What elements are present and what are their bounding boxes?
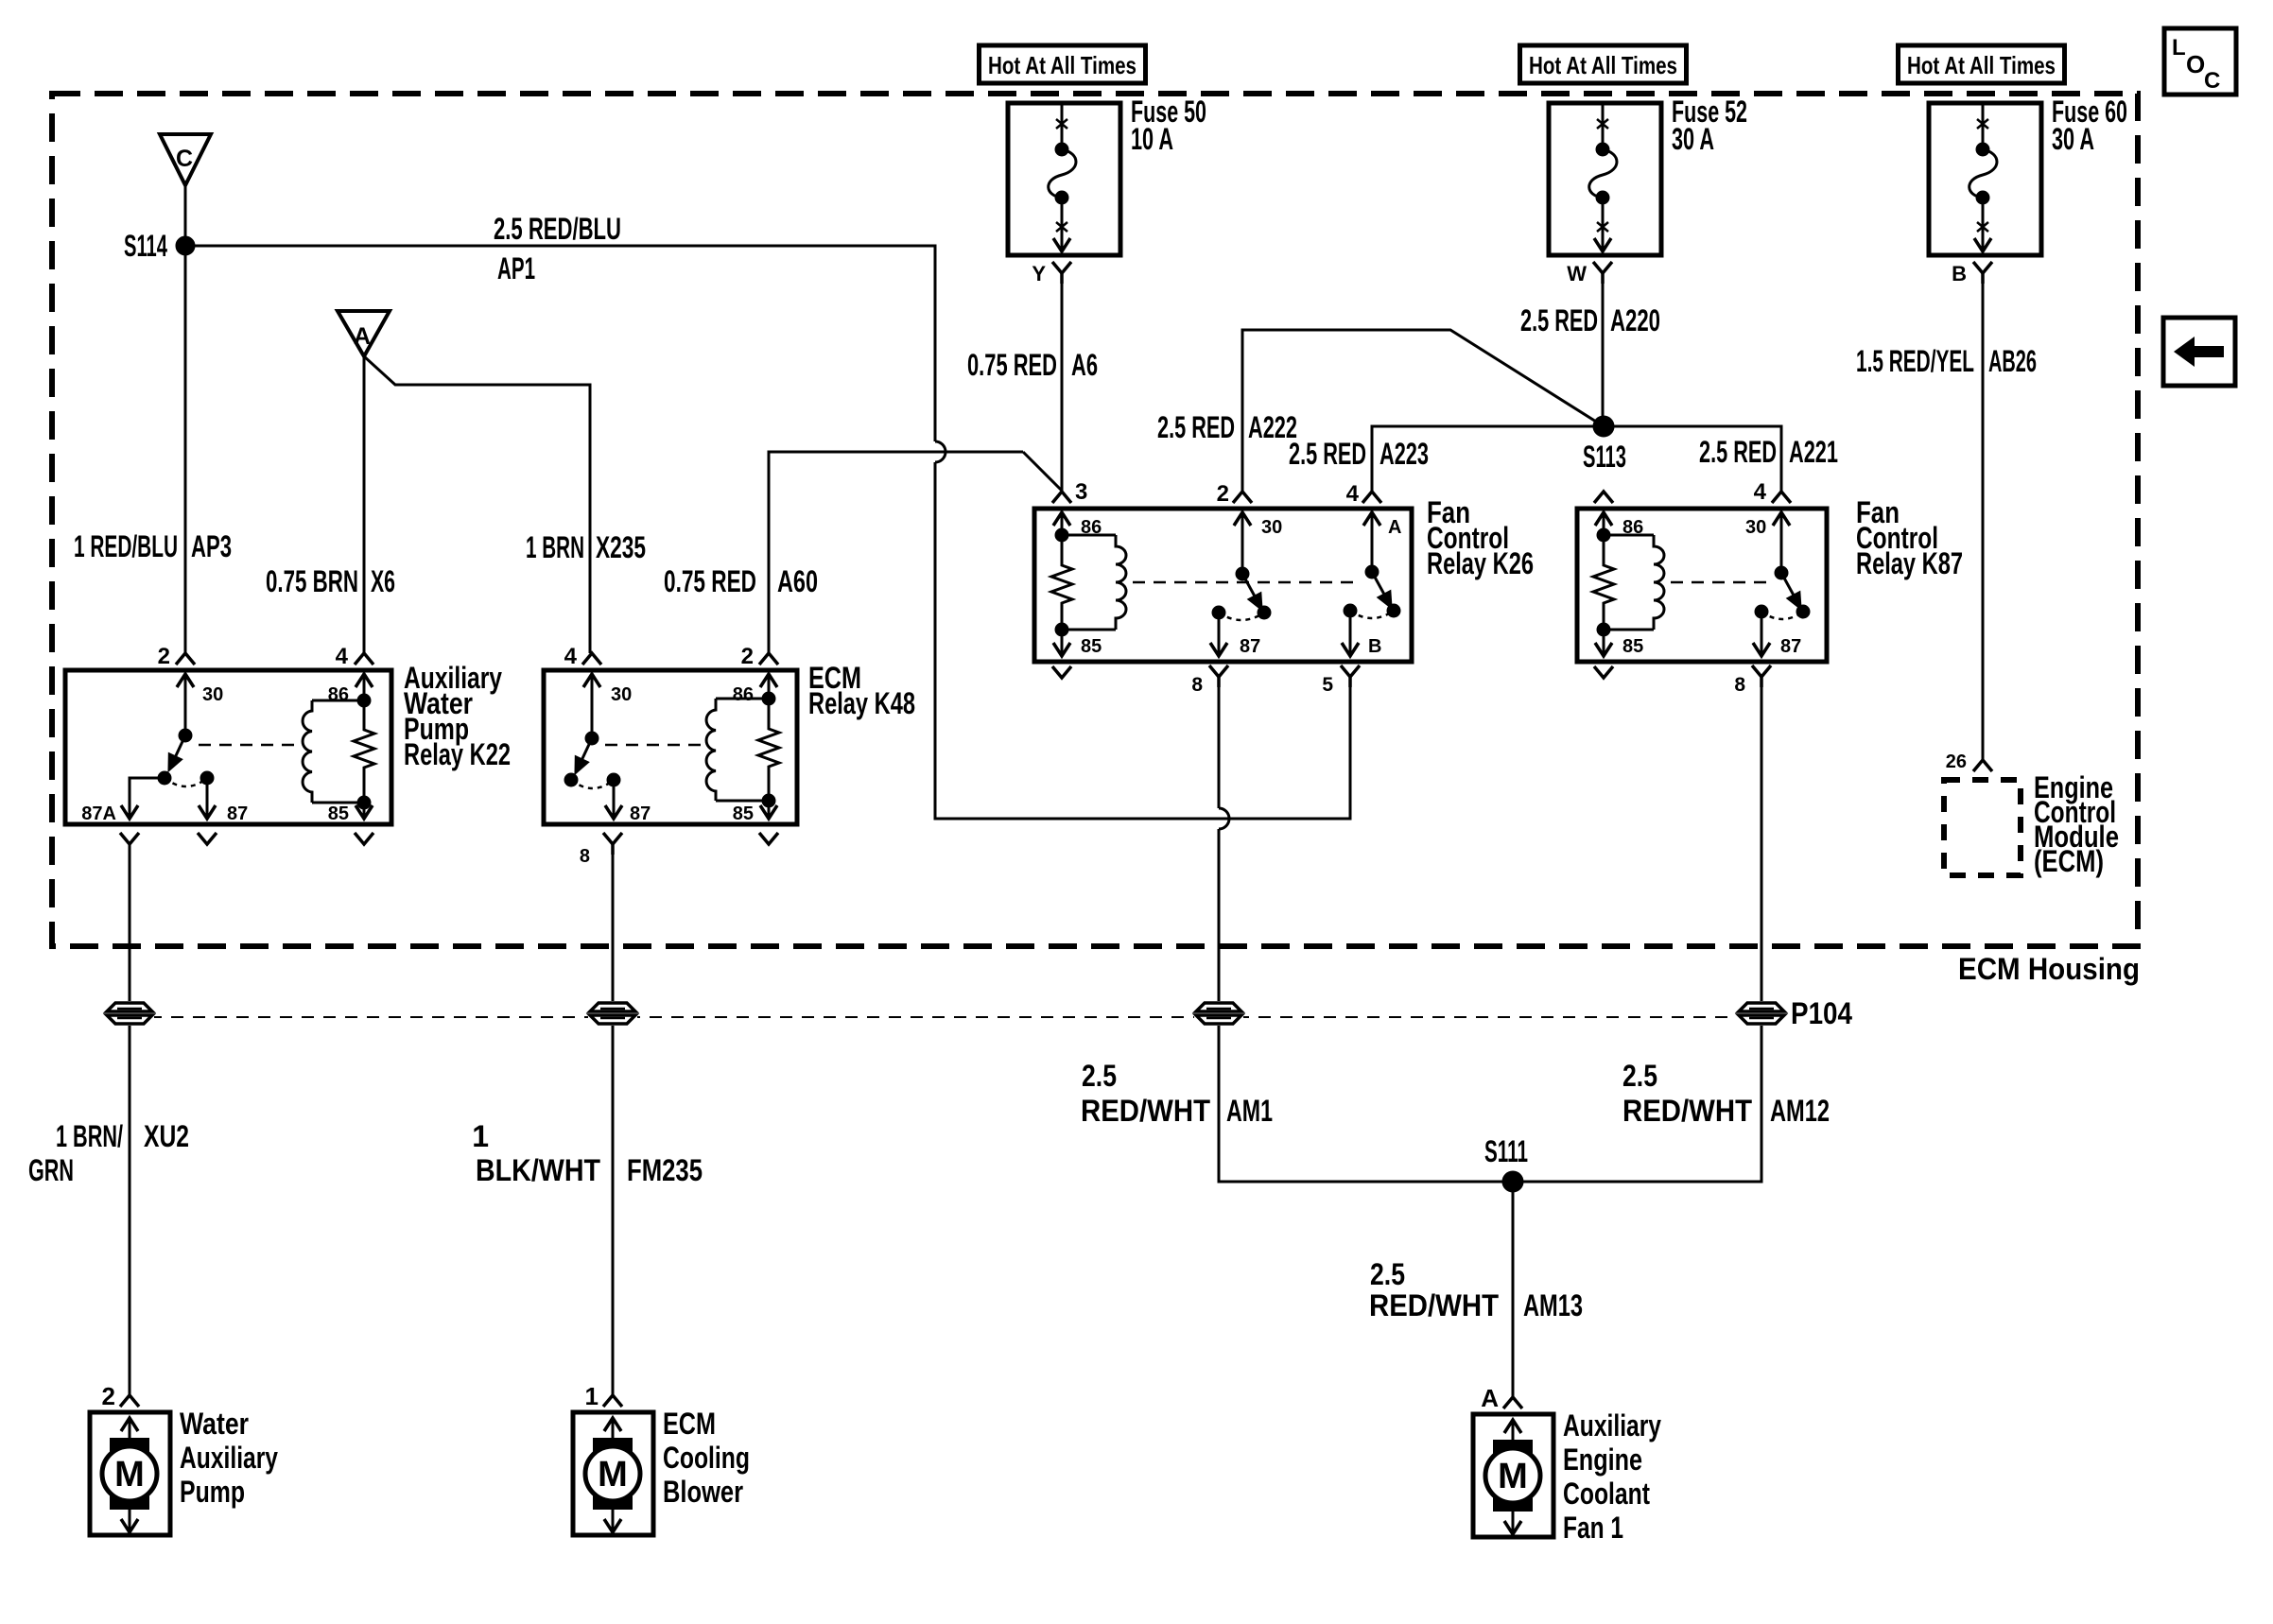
svg-text:Relay K22: Relay K22 [404,737,511,771]
svg-text:87: 87 [1240,636,1260,657]
svg-text:1 BRN: 1 BRN [526,530,584,564]
Engine Control Module (ECM) dashed box [1944,780,2021,875]
K87 switch [1776,567,1787,579]
svg-text:A223: A223 [1379,437,1429,471]
fuse output terminal B [1973,262,1992,273]
svg-text:0.75 RED: 0.75 RED [967,348,1057,382]
svg-text:(ECM): (ECM) [2034,844,2104,878]
K48 pin 85 [768,801,771,819]
svg-text:Hot At All Times: Hot At All Times [1907,51,2056,79]
inline connector grommet at x=1289 [1194,1001,1243,1026]
K22 pin 85 [363,803,366,819]
K87 terminal 4 [1772,492,1791,503]
svg-text:4: 4 [1754,479,1767,505]
svg-text:B: B [1952,262,1967,285]
svg-text:M: M [114,1455,145,1494]
svg-text:AM1: AM1 [1226,1094,1273,1128]
K22 pin 87A [130,778,165,819]
K48 terminal 2 [759,653,778,665]
motor box [1473,1414,1553,1537]
svg-text:8: 8 [1734,674,1745,696]
svg-text:Y: Y [1032,262,1046,285]
svg-text:M: M [598,1455,628,1494]
svg-text:A: A [1481,1384,1499,1412]
svg-text:1: 1 [472,1119,489,1153]
svg-text:XU2: XU2 [144,1119,189,1153]
svg-text:Fan 1: Fan 1 [1563,1511,1623,1545]
svg-text:Auxiliary: Auxiliary [180,1441,278,1475]
K26 pin A [1363,512,1380,526]
svg-text:2: 2 [102,1382,115,1410]
svg-text:2.5 RED: 2.5 RED [1699,435,1777,469]
inline connector grommet at x=648 [588,1001,637,1026]
svg-text:4: 4 [564,644,578,669]
svg-text:A: A [354,323,371,350]
svg-text:86: 86 [328,684,349,705]
relay K48 ECM Relay box [544,670,797,824]
K87 unconnected terminal (pin 86) [1594,492,1613,503]
svg-text:AP1: AP1 [497,251,535,285]
motor box [90,1412,170,1535]
svg-text:1 RED/BLU: 1 RED/BLU [74,529,178,563]
wire 0.75 RED A6 : fuse 50 down to relay K26 pin 3 [1061,279,1064,492]
K48 switch [586,733,598,744]
fuse Fuse 50 (10 A) [1008,103,1120,255]
wire 0.75 RED A60 : relay K48 pin 2 up and over to K26 pin 3 [769,452,1023,653]
wire 1 RED/BLU AP3 : S114 down to relay K22 pin 2 [184,246,187,653]
K48 pin 86 [760,674,777,687]
svg-text:Auxiliary: Auxiliary [1563,1408,1661,1443]
inline connector grommet at x=137 [105,1001,154,1026]
fuse Fuse 60 (30 A) [1929,103,2041,255]
svg-text:2: 2 [741,644,754,669]
wire 2.5 RED/WHT AM12 : K87 pin 8 down to S111 [1513,687,1761,1182]
Hot At All Times label box [1520,45,1687,83]
svg-text:A60: A60 [777,564,818,598]
K26 switch 30-87 [1237,568,1248,579]
svg-text:L: L [2172,35,2186,60]
svg-text:30: 30 [1745,517,1766,538]
svg-text:10 A: 10 A [1131,122,1173,156]
K22 pin 30 [177,674,194,687]
motor terminal A [1512,1291,1515,1397]
svg-text:AM13: AM13 [1523,1288,1583,1322]
K22 terminal 2 [176,653,195,665]
svg-text:AM12: AM12 [1770,1094,1830,1128]
triangle connector C [160,134,211,185]
wire 1.5 RED/YEL AB26 : fuse 60 down to ECM pin 26 [1982,279,1985,760]
svg-text:2.5: 2.5 [1082,1059,1117,1093]
svg-text:30: 30 [202,684,223,705]
svg-text:Coolant: Coolant [1563,1477,1650,1511]
svg-text:87: 87 [227,803,248,824]
svg-text:87A: 87A [81,803,116,824]
K22 resistor [354,700,374,803]
LOC reference box [2164,28,2236,95]
svg-text:S113: S113 [1583,440,1626,474]
K48 pin 8 connector below box [603,833,622,844]
svg-text:X235: X235 [596,530,646,564]
node S113 [1594,417,1613,436]
svg-text:ECM Housing: ECM Housing [1958,952,2140,986]
svg-text:FM235: FM235 [627,1153,703,1187]
svg-text:RED/WHT: RED/WHT [1369,1288,1499,1322]
wire 1 BLK/WHT FM235 : K48 pin 8 down to ECM Cooling Blower [612,855,615,1395]
svg-text:26: 26 [1946,752,1967,772]
K26 resistor [1051,535,1072,630]
K22 coil link (dashed) [199,744,301,747]
svg-text:30 A: 30 A [2052,122,2094,156]
wire 1 BRN X235 : triangle A to relay K48 pin 4 [364,356,590,653]
K48 resistor [758,699,779,801]
svg-text:A221: A221 [1789,435,1838,469]
svg-text:0.75 RED: 0.75 RED [664,564,756,598]
svg-text:Hot At All Times: Hot At All Times [988,51,1136,79]
K48 coil [716,698,769,700]
wire 2.5 RED A222 : K26 pin 2 up and diagonal to S113 [1242,330,1604,492]
svg-text:2.5: 2.5 [1370,1257,1405,1291]
K48 terminal 4 [582,653,601,665]
motor terminal 1 [612,1289,615,1395]
node S114 [177,237,194,254]
K22 switch [180,730,191,741]
svg-text:W: W [1567,262,1587,285]
K87 pin 86 [1595,512,1612,526]
svg-text:2.5: 2.5 [1622,1059,1657,1093]
svg-text:87: 87 [1780,636,1801,657]
svg-text:P104: P104 [1791,996,1852,1030]
svg-text:Hot At All Times: Hot At All Times [1529,51,1677,79]
svg-text:30 A: 30 A [1672,122,1714,156]
svg-text:B: B [1368,636,1381,657]
left-arrow reference box [2163,318,2235,386]
thin dashed harness pass-through line [106,1016,1740,1018]
svg-text:2.5 RED: 2.5 RED [1520,303,1598,337]
svg-text:AB26: AB26 [1988,344,2037,378]
inline connector grommet at x=1863 [1737,1001,1786,1026]
svg-text:87: 87 [630,803,651,824]
svg-text:Relay K48: Relay K48 [808,686,915,720]
svg-text:8: 8 [1191,674,1203,696]
K48 pin 87 [608,774,619,786]
K22 connectors below box [120,833,139,844]
svg-text:85: 85 [733,803,754,824]
K26 terminal 4 [1362,492,1381,503]
K22 terminal 4 [355,653,373,665]
relay K87 Fan Control Relay box [1577,509,1827,662]
K26 terminal 2 [1233,492,1252,503]
wire 2.5 RED/BLU AP1 : S114 right, down, across to K26 pin 5 [185,246,935,441]
svg-text:C: C [176,146,193,172]
svg-text:3: 3 [1075,479,1087,505]
svg-text:85: 85 [328,803,349,824]
K87 pin 30 [1773,512,1790,526]
fuse output terminal W [1593,262,1612,273]
K22 pin 87 [201,772,213,784]
K26 coil [1062,534,1116,537]
svg-text:Relay K87: Relay K87 [1856,546,1963,580]
node S111 [1503,1172,1522,1191]
wire 2.5 RED/WHT AM13 : S111 down to Auxiliary Engine Coolant Fan 1 [1512,1182,1515,1397]
K26 pin 5 connector [1341,665,1360,677]
K22 pin 86 [356,674,373,687]
ECM Housing dashed border [52,94,2138,946]
K87 coil link (dashed) [1671,581,1771,584]
wire 2.5 RED A220 : fuse 52 down to S113 [1602,279,1605,426]
K87 pin 8 connector [1752,665,1771,677]
K26 pin 85 [1061,630,1064,656]
K26 pin 86 [1053,512,1070,526]
svg-text:2.5 RED: 2.5 RED [1157,410,1235,444]
svg-text:Pump: Pump [180,1475,245,1509]
svg-text:1: 1 [585,1382,599,1410]
svg-text:ECM: ECM [663,1407,716,1441]
svg-text:BLK/WHT: BLK/WHT [476,1153,600,1187]
motor terminal 2 [129,1289,131,1395]
svg-text:A220: A220 [1610,303,1660,337]
svg-text:85: 85 [1622,636,1643,657]
Hot At All Times label box [980,45,1146,83]
K26 coil link (dashed) [1133,581,1362,584]
K22 coil [312,700,364,702]
K87 resistor [1593,535,1614,630]
wire 2.5 RED A223 : K26 pin 4 up to S113 [1372,426,1604,492]
svg-text:S111: S111 [1484,1134,1528,1168]
svg-text:2.5 RED: 2.5 RED [1289,437,1366,471]
svg-text:Engine: Engine [1563,1443,1642,1477]
K26 pin 8 connector [1209,665,1228,677]
svg-text:Cooling: Cooling [663,1441,750,1475]
svg-text:30: 30 [1261,517,1282,538]
K48 coil link (dashed) [605,744,703,747]
svg-text:Water: Water [180,1407,249,1441]
wire from triangle C to S114 [184,185,187,246]
svg-text:2.5 RED/BLU: 2.5 RED/BLU [494,212,621,246]
svg-text:AP3: AP3 [191,529,232,563]
svg-text:30: 30 [611,684,632,705]
svg-text:85: 85 [1081,636,1102,657]
K48 pin 30 [583,674,600,687]
wire 1 BRN/GRN XU2 : K22 pin 87A down to Water Auxiliary Pump [129,844,131,1395]
K87 coil [1604,534,1654,537]
ECM pin 26 terminal [1973,760,1992,771]
fuse output terminal Y [1052,262,1071,273]
triangle connector A [338,311,390,356]
svg-text:O: O [2186,50,2205,78]
svg-text:4: 4 [1346,481,1360,507]
relay K22 Auxiliary Water Pump Relay box [65,670,391,824]
svg-text:86: 86 [733,684,754,705]
svg-text:RED/WHT: RED/WHT [1622,1094,1752,1128]
svg-text:Relay K26: Relay K26 [1427,546,1534,580]
fuse Fuse 52 (30 A) [1549,103,1661,255]
svg-text:GRN: GRN [28,1153,74,1187]
svg-text:2: 2 [1217,481,1229,507]
K26 pin B [1345,605,1356,616]
svg-text:5: 5 [1322,674,1333,696]
svg-text:A: A [1388,517,1401,538]
wire 2.5 RED/WHT AM1 : K26 pin 8 down to S111 [1218,687,1221,808]
svg-text:M: M [1498,1457,1528,1496]
svg-text:4: 4 [336,644,349,669]
K87 pin 87 [1756,606,1767,617]
K26 pin 30 [1234,512,1251,526]
svg-text:2: 2 [158,644,170,669]
svg-text:0.75 BRN: 0.75 BRN [266,564,358,598]
svg-text:C: C [2204,68,2220,94]
K26 terminal 3 [1052,492,1071,503]
svg-text:RED/WHT: RED/WHT [1081,1094,1210,1128]
svg-text:1.5 RED/YEL: 1.5 RED/YEL [1856,344,1974,378]
K26 pin 87 [1213,607,1224,618]
motor box [573,1412,653,1535]
svg-text:Blower: Blower [663,1475,743,1509]
Hot At All Times label box [1899,45,2065,83]
svg-text:X6: X6 [371,564,395,598]
relay K26 Fan Control Relay box [1034,509,1412,662]
wire 0.75 BRN X6 : triangle A down to relay K22 pin 4 [363,356,366,653]
svg-text:8: 8 [580,846,590,867]
wire 2.5 RED A221 : S113 right and down to K87 pin 4 [1604,426,1781,492]
svg-text:S114: S114 [124,229,167,263]
svg-text:1 BRN/: 1 BRN/ [56,1119,123,1153]
K87 pin 85 [1603,630,1605,656]
K26 switch A-B [1366,566,1378,578]
svg-text:A6: A6 [1071,348,1098,382]
